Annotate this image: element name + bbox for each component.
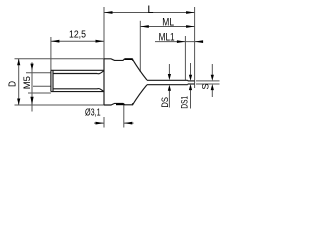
svg-text:ML1: ML1 bbox=[159, 32, 175, 44]
svg-text:Ø3,1: Ø3,1 bbox=[85, 107, 101, 118]
svg-text:D: D bbox=[7, 81, 18, 87]
svg-text:DS1: DS1 bbox=[179, 96, 189, 109]
svg-text:M5: M5 bbox=[22, 76, 33, 89]
svg-text:L: L bbox=[147, 4, 153, 16]
svg-text:DS: DS bbox=[159, 97, 170, 108]
svg-text:S: S bbox=[201, 83, 211, 89]
svg-text:ML: ML bbox=[162, 16, 174, 28]
svg-text:12,5: 12,5 bbox=[69, 29, 86, 41]
